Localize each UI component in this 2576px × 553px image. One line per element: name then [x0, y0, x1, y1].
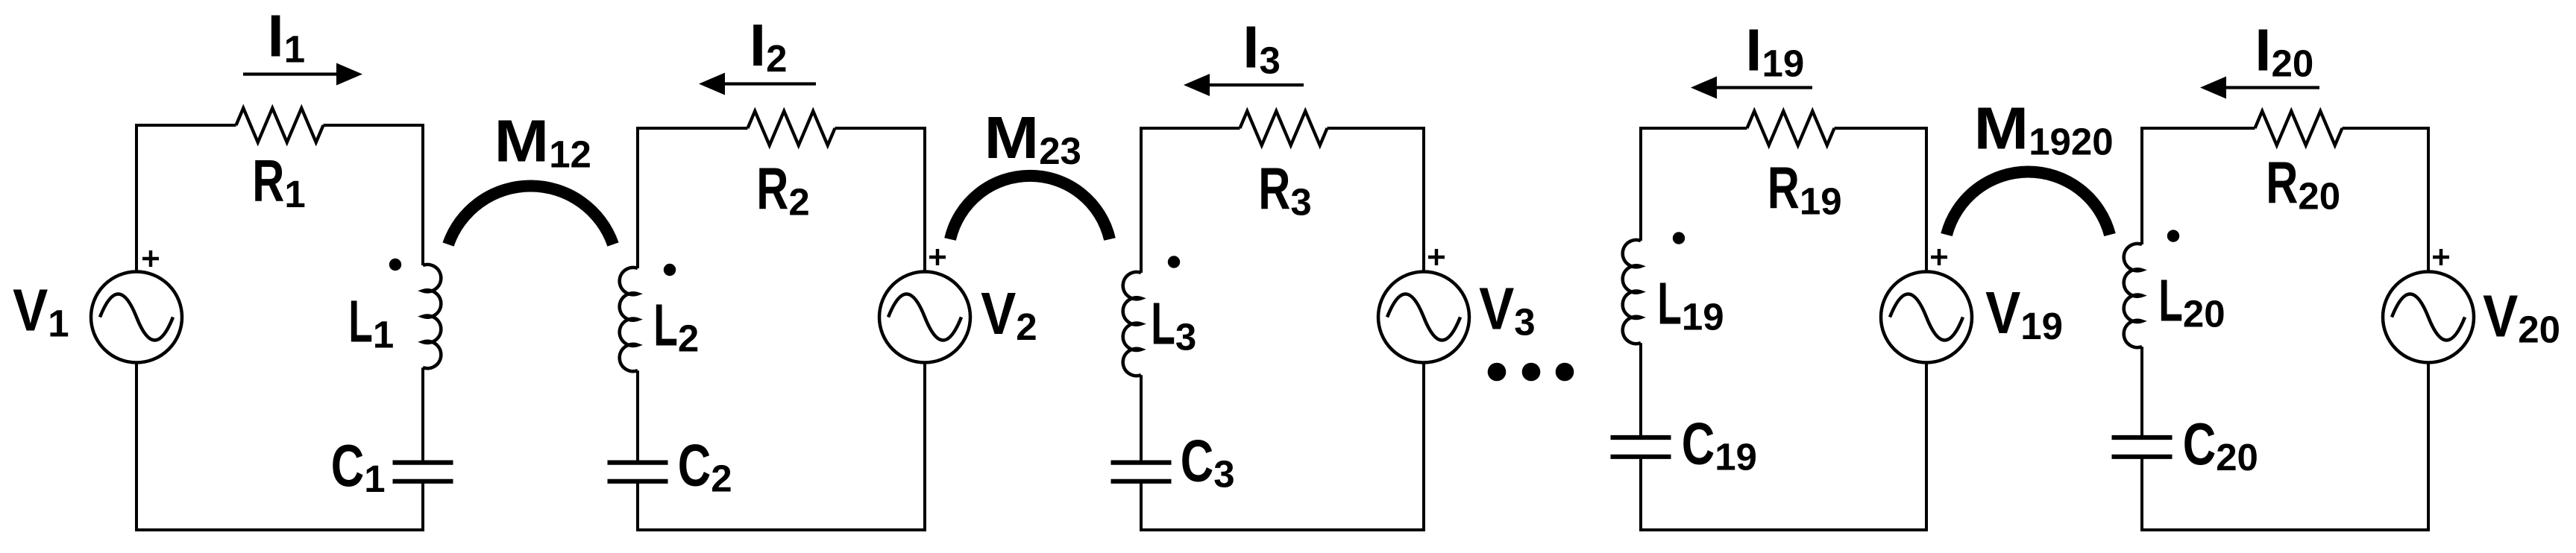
svg-text:R2: R2	[756, 156, 809, 224]
svg-text:I3: I3	[1243, 14, 1281, 82]
svg-text:R20: R20	[2266, 149, 2340, 217]
svg-text:C2: C2	[678, 432, 732, 500]
svg-text:C20: C20	[2183, 411, 2258, 478]
svg-text:L3: L3	[1151, 291, 1196, 358]
svg-text:V2: V2	[981, 280, 1037, 348]
svg-text:R1: R1	[252, 148, 305, 215]
svg-text:V3: V3	[1479, 276, 1536, 344]
svg-text:L1: L1	[348, 288, 394, 356]
svg-text:R3: R3	[1258, 156, 1311, 224]
svg-text:L20: L20	[2158, 268, 2225, 335]
svg-text:V19: V19	[1985, 279, 2063, 347]
svg-text:M1920: M1920	[1974, 95, 2114, 163]
svg-text:M23: M23	[984, 104, 1081, 172]
svg-text:L19: L19	[1657, 271, 1724, 338]
svg-text:V20: V20	[2483, 282, 2560, 350]
svg-text:I20: I20	[2255, 17, 2313, 85]
svg-text:C1: C1	[331, 432, 386, 500]
svg-text:M12: M12	[494, 108, 591, 176]
svg-text:I2: I2	[750, 12, 788, 80]
svg-text:I19: I19	[1745, 17, 1804, 85]
svg-text:C19: C19	[1682, 411, 1757, 478]
svg-text:C3: C3	[1181, 428, 1235, 496]
svg-text:L2: L2	[653, 292, 699, 360]
svg-text:R19: R19	[1768, 155, 1842, 223]
svg-text:I1: I1	[268, 2, 306, 70]
svg-text:V1: V1	[13, 277, 69, 345]
